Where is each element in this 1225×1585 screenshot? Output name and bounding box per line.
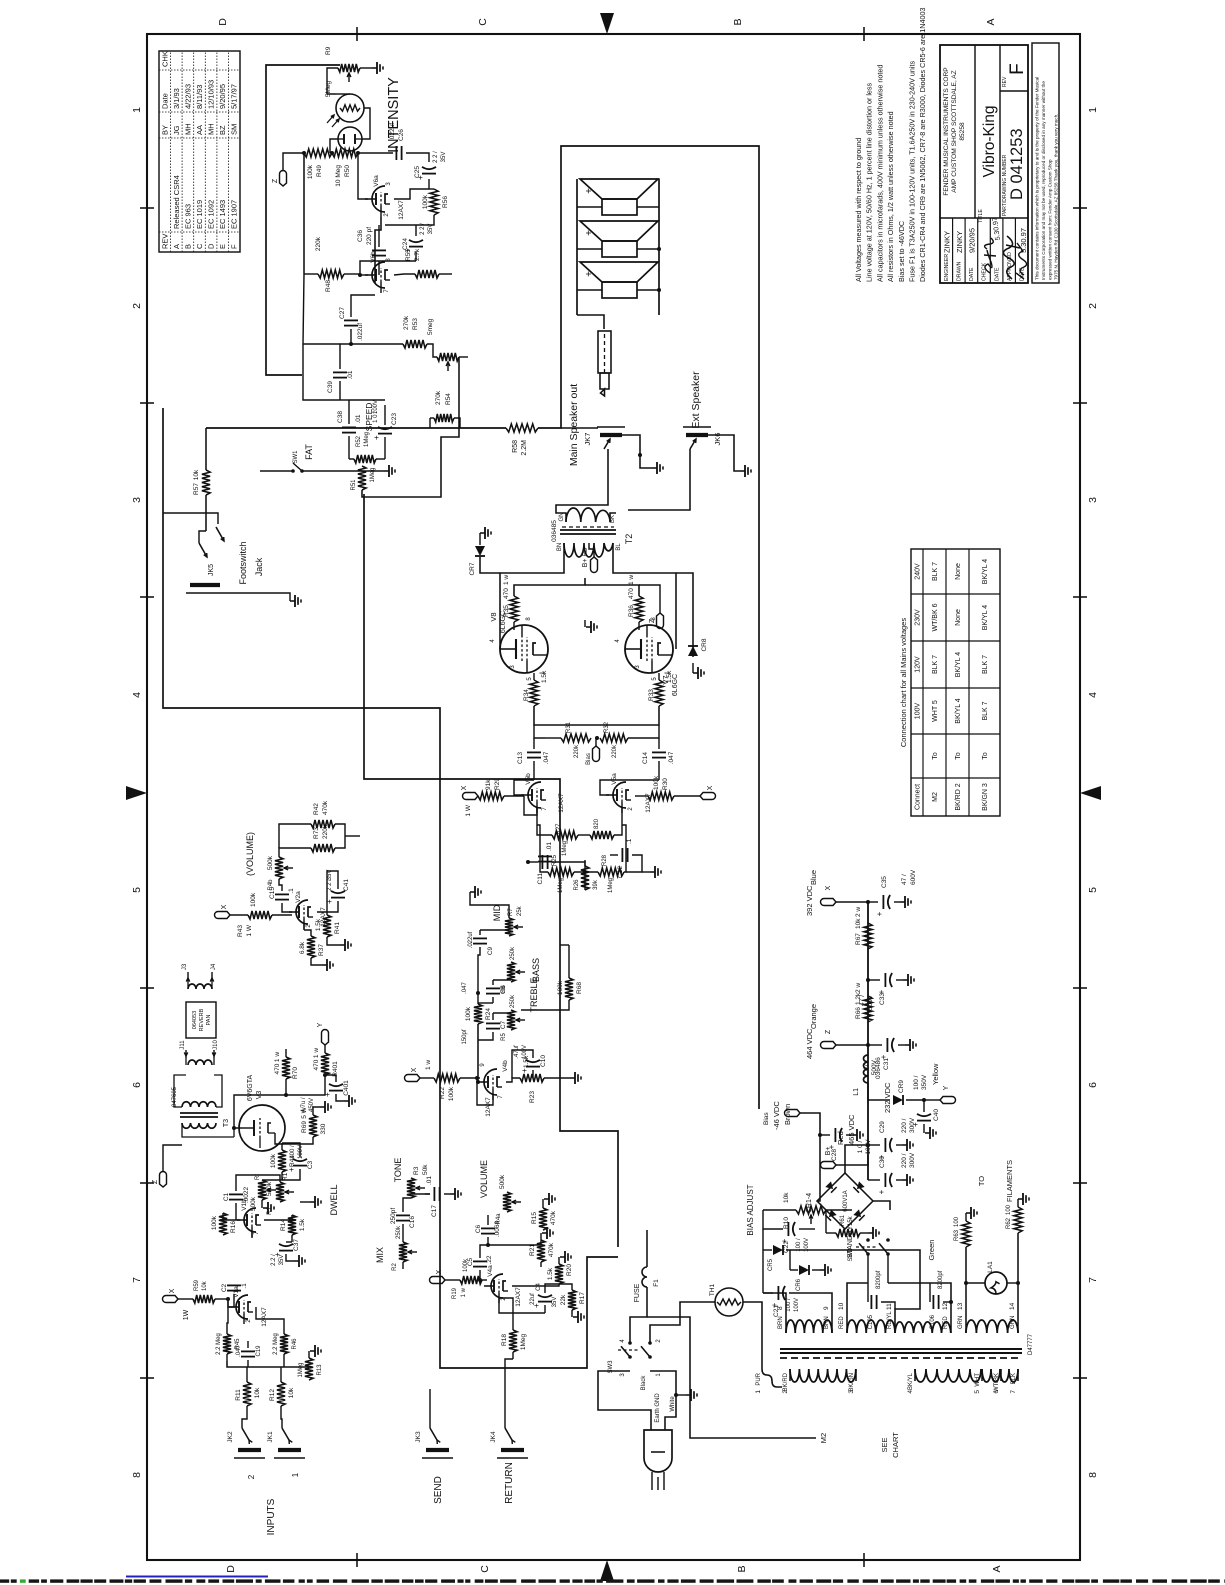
svg-text:1 w: 1 w [425,1060,432,1070]
svg-text:B: B [732,18,744,25]
svg-text:R68: R68 [576,982,583,994]
svg-text:C35: C35 [881,876,888,888]
svg-text:WT/BK: WT/BK [994,1373,1000,1392]
tube V6a 12AX7 [372,186,385,212]
scan artifact blue line [126,1575,268,1577]
svg-text:J11: J11 [180,1040,186,1050]
wire plate node [478,1024,480,1082]
svg-text:None: None [955,563,962,580]
pilot lamp LA1 [985,1272,1007,1294]
svg-text:.047: .047 [668,751,675,764]
zone ticks top/bottom [140,207,154,209]
svg-text:C31: C31 [883,1058,890,1070]
pot R2 MIX 250k [399,1242,407,1262]
svg-text:MH: MH [183,123,192,135]
svg-text:.01: .01 [347,370,354,379]
svg-text:036485: 036485 [551,520,558,542]
capacitor C401 [329,1090,343,1092]
svg-text:Z: Z [272,178,279,183]
capacitor C28 10/100V [818,1133,822,1137]
svg-text:REV: REV [160,234,169,249]
svg-text:RED: RED [943,1316,949,1329]
svg-text:R69: R69 [301,1121,308,1133]
wire V6a grid [375,217,381,283]
svg-text:PAN: PAN [206,1015,212,1026]
resistor R23 1.5k [520,1074,544,1082]
svg-text:91k: 91k [485,779,492,790]
svg-text:15k: 15k [848,1215,854,1226]
svg-text:8: 8 [131,1472,143,1478]
svg-text:.047: .047 [462,982,468,994]
svg-text:2.7k: 2.7k [414,248,421,261]
svg-text:V2a: V2a [295,891,302,903]
tube V5b 12AX7 phase inverter [528,782,541,808]
svg-text:JK2: JK2 [227,1431,234,1443]
svg-text:R50: R50 [344,165,351,177]
svg-text:50k: 50k [422,1164,429,1175]
capacitor C4 22uf 35V [538,1301,552,1303]
pot R7 MID 25k [505,918,513,936]
capacitor C33 47/500V [868,979,880,981]
svg-text:T3: T3 [223,1119,230,1127]
LDR light arrows [332,119,339,127]
resistor R16 100k [219,1213,227,1235]
svg-text:EC 963: EC 963 [183,204,192,229]
svg-text:+: + [584,271,595,277]
svg-text:100k: 100k [250,892,257,907]
svg-text:R31: R31 [566,721,572,733]
svg-text:+: + [287,1167,296,1172]
capacitor C6 .0068 [481,1233,495,1235]
resistor R21 470k [537,1240,545,1262]
svg-text:R5: R5 [501,1033,507,1041]
center arrow right edge [600,13,614,34]
center arrow left edge [600,1560,614,1581]
resistor R67 10k 2w [864,923,872,949]
pot Rt 500k dwell send [258,1180,266,1200]
resistor R19 100k 1W [460,1276,482,1284]
svg-text:600V1A: 600V1A [843,1190,849,1211]
svg-text:ENGINEER: ENGINEER [944,254,950,281]
terminal X above R29 [463,793,478,800]
svg-text:C41: C41 [343,879,350,891]
svg-text:Diodes CR1-CR4 and CR9 are 1N5: Diodes CR1-CR4 and CR9 are 1N5062, CR7-8… [918,8,927,282]
svg-text:470: 470 [274,1063,281,1074]
svg-text:.1: .1 [288,888,295,894]
jack JK7 main speaker [600,433,622,437]
wire to M2 terminal [647,1317,816,1438]
svg-text:C33: C33 [879,993,886,1005]
pot R9 5Meg intensity [338,64,360,72]
svg-text:.01: .01 [546,842,553,851]
svg-text:C22: C22 [783,1241,790,1253]
svg-text:R22: R22 [439,1087,446,1099]
svg-text:350V: 350V [921,1074,928,1090]
svg-text:+: + [584,230,595,236]
svg-text:220 /: 220 / [901,1153,908,1168]
standby switch SW2 [866,1252,870,1256]
svg-text:500k: 500k [267,855,274,870]
svg-text:BK/GN: BK/GN [849,1373,855,1392]
svg-text:(VOLUME): (VOLUME) [245,832,255,876]
svg-text:Jack: Jack [254,557,264,576]
svg-text:TO: TO [977,1176,986,1186]
svg-text:GRN: GRN [958,1316,964,1329]
svg-text:35V: 35V [552,1297,558,1308]
wire JK6 to T2 secondary [628,449,690,510]
svg-text:35V: 35V [428,224,434,235]
resistor R15 470k [539,1208,547,1230]
resistor R70 470 1w [282,1057,290,1079]
wire R9 top [327,68,338,94]
svg-text:JK5: JK5 [208,564,215,576]
svg-text:To: To [982,752,989,760]
svg-text:.1: .1 [626,838,633,844]
capacitor C30 220/300V [868,1179,880,1181]
svg-text:3: 3 [848,1390,855,1394]
svg-text:100V: 100V [373,400,379,414]
tube V5a 12AX7 phase inverter [613,782,626,808]
svg-text:1.5k: 1.5k [315,918,322,931]
svg-text:-46 VDC: -46 VDC [772,1101,781,1130]
svg-text:100k: 100k [211,1215,218,1230]
pot R5 TREBLE 250k [507,1010,515,1030]
svg-text:12AX7: 12AX7 [515,1287,522,1307]
pot R6 BASS 250k [507,962,515,982]
T1 pin 1 PUR lead [762,1369,782,1387]
jack JK6 ext speaker [686,433,708,437]
svg-text:R37: R37 [318,944,325,956]
title block [940,45,1028,283]
svg-text:12/10/93: 12/10/93 [207,80,216,109]
pot R4b 500k [275,857,283,879]
wires T1 secondary to supply [763,1293,786,1322]
svg-text:270k: 270k [435,390,442,405]
svg-text:GN: GN [559,513,565,522]
svg-text:1 W: 1 W [246,924,253,936]
svg-text:12AX7: 12AX7 [485,1097,492,1117]
diode CR7 [480,557,500,573]
svg-text:100k: 100k [653,775,660,790]
svg-text:450V: 450V [309,1098,315,1112]
capacitor C12 .1 [621,848,623,862]
svg-text:R42: R42 [313,803,320,815]
svg-text:6.8k: 6.8k [299,941,306,954]
wire input node [226,1297,230,1301]
terminal X at V2a [215,912,230,919]
svg-text:1Meg: 1Meg [558,878,564,893]
svg-text:DWELL: DWELL [329,1184,339,1215]
wire SW1 to ground [302,470,384,472]
svg-text:1 w: 1 w [461,1287,467,1297]
svg-text:R52: R52 [356,435,362,447]
svg-text:C1: C1 [223,1192,230,1201]
svg-text:BLK 7: BLK 7 [932,655,939,674]
pot R10 [796,1206,826,1214]
svg-text:R59: R59 [194,1279,200,1291]
svg-text:C7: C7 [500,1020,507,1029]
capacitor C16 250pf [396,1220,410,1222]
wire bias adjust [763,1209,796,1211]
svg-text:R17: R17 [579,1292,586,1304]
svg-text:1: 1 [755,1390,762,1394]
transformer T2 core [560,533,616,535]
svg-text:.022uf: .022uf [468,931,474,948]
svg-text:D: D [225,1565,237,1573]
svg-text:100V: 100V [915,703,922,720]
svg-text:B: B [183,244,192,249]
svg-text:8: 8 [1087,1472,1099,1478]
svg-text:RD: RD [583,547,589,556]
capacitor C10 .47uf 100V [526,1066,540,1068]
svg-text:820: 820 [594,818,600,829]
capacitor C36 220pf [372,255,386,257]
svg-text:1 w: 1 w [313,1048,320,1058]
svg-text:Date: Date [160,93,169,109]
svg-text:Yellow: Yellow [931,1063,940,1085]
svg-text:This document contains informa: This document contains information which… [1035,77,1040,280]
svg-text:R53: R53 [412,318,419,330]
pot R1 DWELL 500k [276,1182,284,1202]
svg-text:All Voltages measured with res: All Voltages measured with respect to gr… [854,138,863,282]
capacitor C21 100/100V [777,1286,779,1300]
svg-text:R58: R58 [512,440,519,453]
svg-text:EC 1907: EC 1907 [230,200,239,229]
svg-text:100k: 100k [307,164,314,179]
title cell Vibro-King [999,45,1001,218]
pot R3 TONE 50k [407,1178,415,1198]
svg-text:C: C [195,243,204,249]
svg-text:EC 1019: EC 1019 [195,200,204,229]
wire TONE wiper to C17 [411,1193,430,1195]
svg-text:BK/GN 3: BK/GN 3 [982,783,989,811]
T2 primary center tap RD [589,543,594,549]
svg-text:100: 100 [954,1216,960,1227]
svg-text:270k: 270k [403,315,410,330]
svg-text:470k: 470k [322,800,329,815]
svg-text:600V: 600V [910,869,917,885]
tube V4b 12AX7 [484,1069,497,1095]
svg-text:Bias: Bias [763,1112,770,1125]
svg-text:2: 2 [247,1474,256,1479]
svg-text:BIAS ADJUST: BIAS ADJUST [746,1184,755,1235]
svg-text:X: X [707,785,714,790]
svg-text:X: X [436,1269,443,1274]
svg-text:Connection chart for all Mains: Connection chart for all Mains voltages [899,618,908,747]
svg-text:R66: R66 [855,1007,862,1019]
bias supply terminal -46 VDC Brown [800,1113,820,1201]
svg-text:100V: 100V [522,1045,528,1059]
svg-text:1 w: 1 w [274,1052,281,1062]
terminal B+ 465 VDC red [836,1155,868,1165]
reverb pan input coil [188,984,212,989]
capacitor C5 .22 [473,1266,487,1268]
resistor R44 100k [278,1150,286,1172]
svg-text:470: 470 [503,588,510,599]
capacitor C29 220/300V [866,1143,870,1147]
svg-text:Brown: Brown [783,1104,792,1125]
svg-text:2.2M: 2.2M [521,440,528,456]
jack JK5 footswitch [190,583,220,587]
svg-text:.47uf: .47uf [514,1045,520,1059]
arrows J3 J4 [187,972,189,980]
svg-text:1Meg: 1Meg [520,1333,527,1350]
svg-text:R56: R56 [442,196,449,208]
svg-text:1Meg: 1Meg [364,432,370,447]
svg-text:470: 470 [628,588,635,599]
terminal X at R19 [430,1277,445,1284]
svg-text:C39: C39 [327,381,334,393]
svg-text:CR6: CR6 [796,1278,802,1291]
svg-text:Y: Y [943,1085,950,1090]
svg-text:35V: 35V [279,1255,285,1266]
svg-text:R51: R51 [351,479,357,491]
capacitor C2 .1 [227,1290,241,1292]
wires reverb driver [279,848,311,857]
svg-text:C26: C26 [398,129,405,141]
svg-text:C16: C16 [409,1216,416,1228]
svg-text:C6: C6 [475,1224,482,1233]
svg-text:LA1: LA1 [987,1261,994,1273]
svg-text:220 pf: 220 pf [366,227,373,245]
disclaimer box [1032,43,1059,283]
mains plug prongs [651,1472,653,1490]
svg-text:BK/YL: BK/YL [908,1372,914,1390]
svg-text:BK/YL 4: BK/YL 4 [955,652,962,678]
svg-text:ZINKY: ZINKY [955,231,964,253]
jack JK1 input 1 [278,1448,301,1452]
svg-text:4/22/93: 4/22/93 [183,84,192,109]
svg-text:R23: R23 [529,1091,536,1103]
svg-text:FUSE: FUSE [634,1283,641,1302]
T1 primary pin leads and labels [789,1369,791,1381]
svg-text:R34: R34 [523,689,530,701]
wire bus left [303,344,340,400]
svg-text:8: 8 [777,1306,784,1310]
svg-text:+: + [372,435,381,440]
svg-text:BK: BK [610,515,616,523]
svg-text:SEE: SEE [880,1437,889,1452]
resistor R18 1Meg [509,1330,517,1352]
svg-text:R36: R36 [628,605,635,617]
capacitor C26 .022uf [395,146,397,160]
svg-text:C15: C15 [269,887,276,899]
svg-text:1: 1 [1087,107,1099,113]
capacitor C11 .01 [538,861,552,863]
svg-text:6L6GC: 6L6GC [672,674,679,696]
svg-text:330: 330 [320,1123,327,1134]
svg-text:6: 6 [1087,1082,1099,1088]
svg-text:8200pf: 8200pf [876,1270,882,1289]
T1 primary winding 2-3 BK/RD BK/GN [790,1369,856,1382]
svg-text:C: C [477,18,489,26]
svg-text:.01: .01 [426,1176,433,1185]
svg-text:1: 1 [131,107,143,113]
wire to speaker plug [577,315,604,329]
svg-text:12AX7: 12AX7 [558,793,565,813]
svg-text:R28: R28 [602,854,608,866]
T1 primary winding 5-6-7 WHT WT/BK BLK [982,1369,1018,1382]
capacitor C1 .0022 [229,1199,243,1201]
svg-text:100k: 100k [448,1086,455,1101]
svg-text:1.5k: 1.5k [666,670,673,683]
diode CR6 [799,1265,809,1275]
svg-text:R3: R3 [413,1166,420,1175]
svg-text:300V: 300V [909,1152,916,1168]
svg-text:2 2 /: 2 2 / [433,151,439,163]
svg-text:+: + [877,1189,886,1194]
svg-text:500k: 500k [266,1181,273,1196]
svg-text:To: To [932,752,939,760]
speaker 1 [602,199,637,215]
terminal B+ at T2 [593,549,595,557]
svg-text:240V: 240V [915,563,922,580]
ground footswitch [224,593,290,601]
junction dots speaker bus [657,247,661,251]
svg-text:100: 100 [1006,1204,1012,1215]
svg-text:R70: R70 [292,1067,299,1079]
svg-text:Y: Y [317,1022,324,1027]
jack JK3 send [426,1448,449,1452]
svg-text:39k: 39k [593,879,599,890]
svg-text:R67: R67 [855,933,862,945]
svg-text:V4b: V4b [502,1060,509,1072]
svg-text:C401: C401 [343,1080,350,1096]
svg-text:22uf: 22uf [530,1293,536,1305]
svg-text:6: 6 [131,1082,143,1088]
svg-text:R12: R12 [269,1389,276,1401]
svg-text:25k: 25k [517,905,523,916]
resistor R61 15k [836,1229,860,1237]
svg-text:13: 13 [957,1302,964,1310]
svg-text:EC 1493: EC 1493 [218,200,227,229]
svg-text:M2: M2 [819,1433,828,1443]
svg-text:2: 2 [1087,303,1099,309]
svg-text:10k: 10k [202,1280,208,1291]
svg-text:REV: REV [1002,76,1008,87]
svg-text:V8: V8 [489,612,498,621]
resistor R29 91k 1W [524,796,537,815]
svg-text:R2: R2 [392,1263,398,1271]
svg-text:470: 470 [313,1059,320,1070]
wire SW1 [260,470,293,472]
ground at R9 [360,67,372,69]
svg-text:Released CSR4: Released CSR4 [172,175,181,229]
terminal X 392 VDC [866,900,870,904]
svg-text:expressed written consent from: expressed written consent from: Fender A… [1047,159,1052,280]
wire footswitch to loop [163,513,218,524]
svg-text:3: 3 [131,497,143,503]
transformer T1 core [780,1348,1022,1350]
fuse F1 [646,1230,648,1267]
svg-text:C40: C40 [933,1109,940,1121]
zone ticks sides [356,1553,358,1567]
svg-text:35V: 35V [441,152,447,163]
svg-text:Instruments Corporation and ma: Instruments Corporation and may not be u… [1041,81,1046,280]
svg-text:1.5k: 1.5k [299,1218,306,1231]
wires send return [429,1405,431,1428]
wire grid bus [534,706,659,725]
capacitor C105 8200pf [867,1283,869,1302]
svg-text:047605: 047605 [172,1086,178,1107]
resistor R14 1.5k [288,1215,296,1235]
svg-text:100V: 100V [794,1298,800,1312]
svg-text:392 VDC: 392 VDC [805,885,814,916]
svg-text:C23: C23 [391,413,398,425]
svg-text:C17: C17 [431,1205,438,1217]
wire V6a cathode [394,189,429,199]
svg-text:CR9: CR9 [898,1080,905,1093]
